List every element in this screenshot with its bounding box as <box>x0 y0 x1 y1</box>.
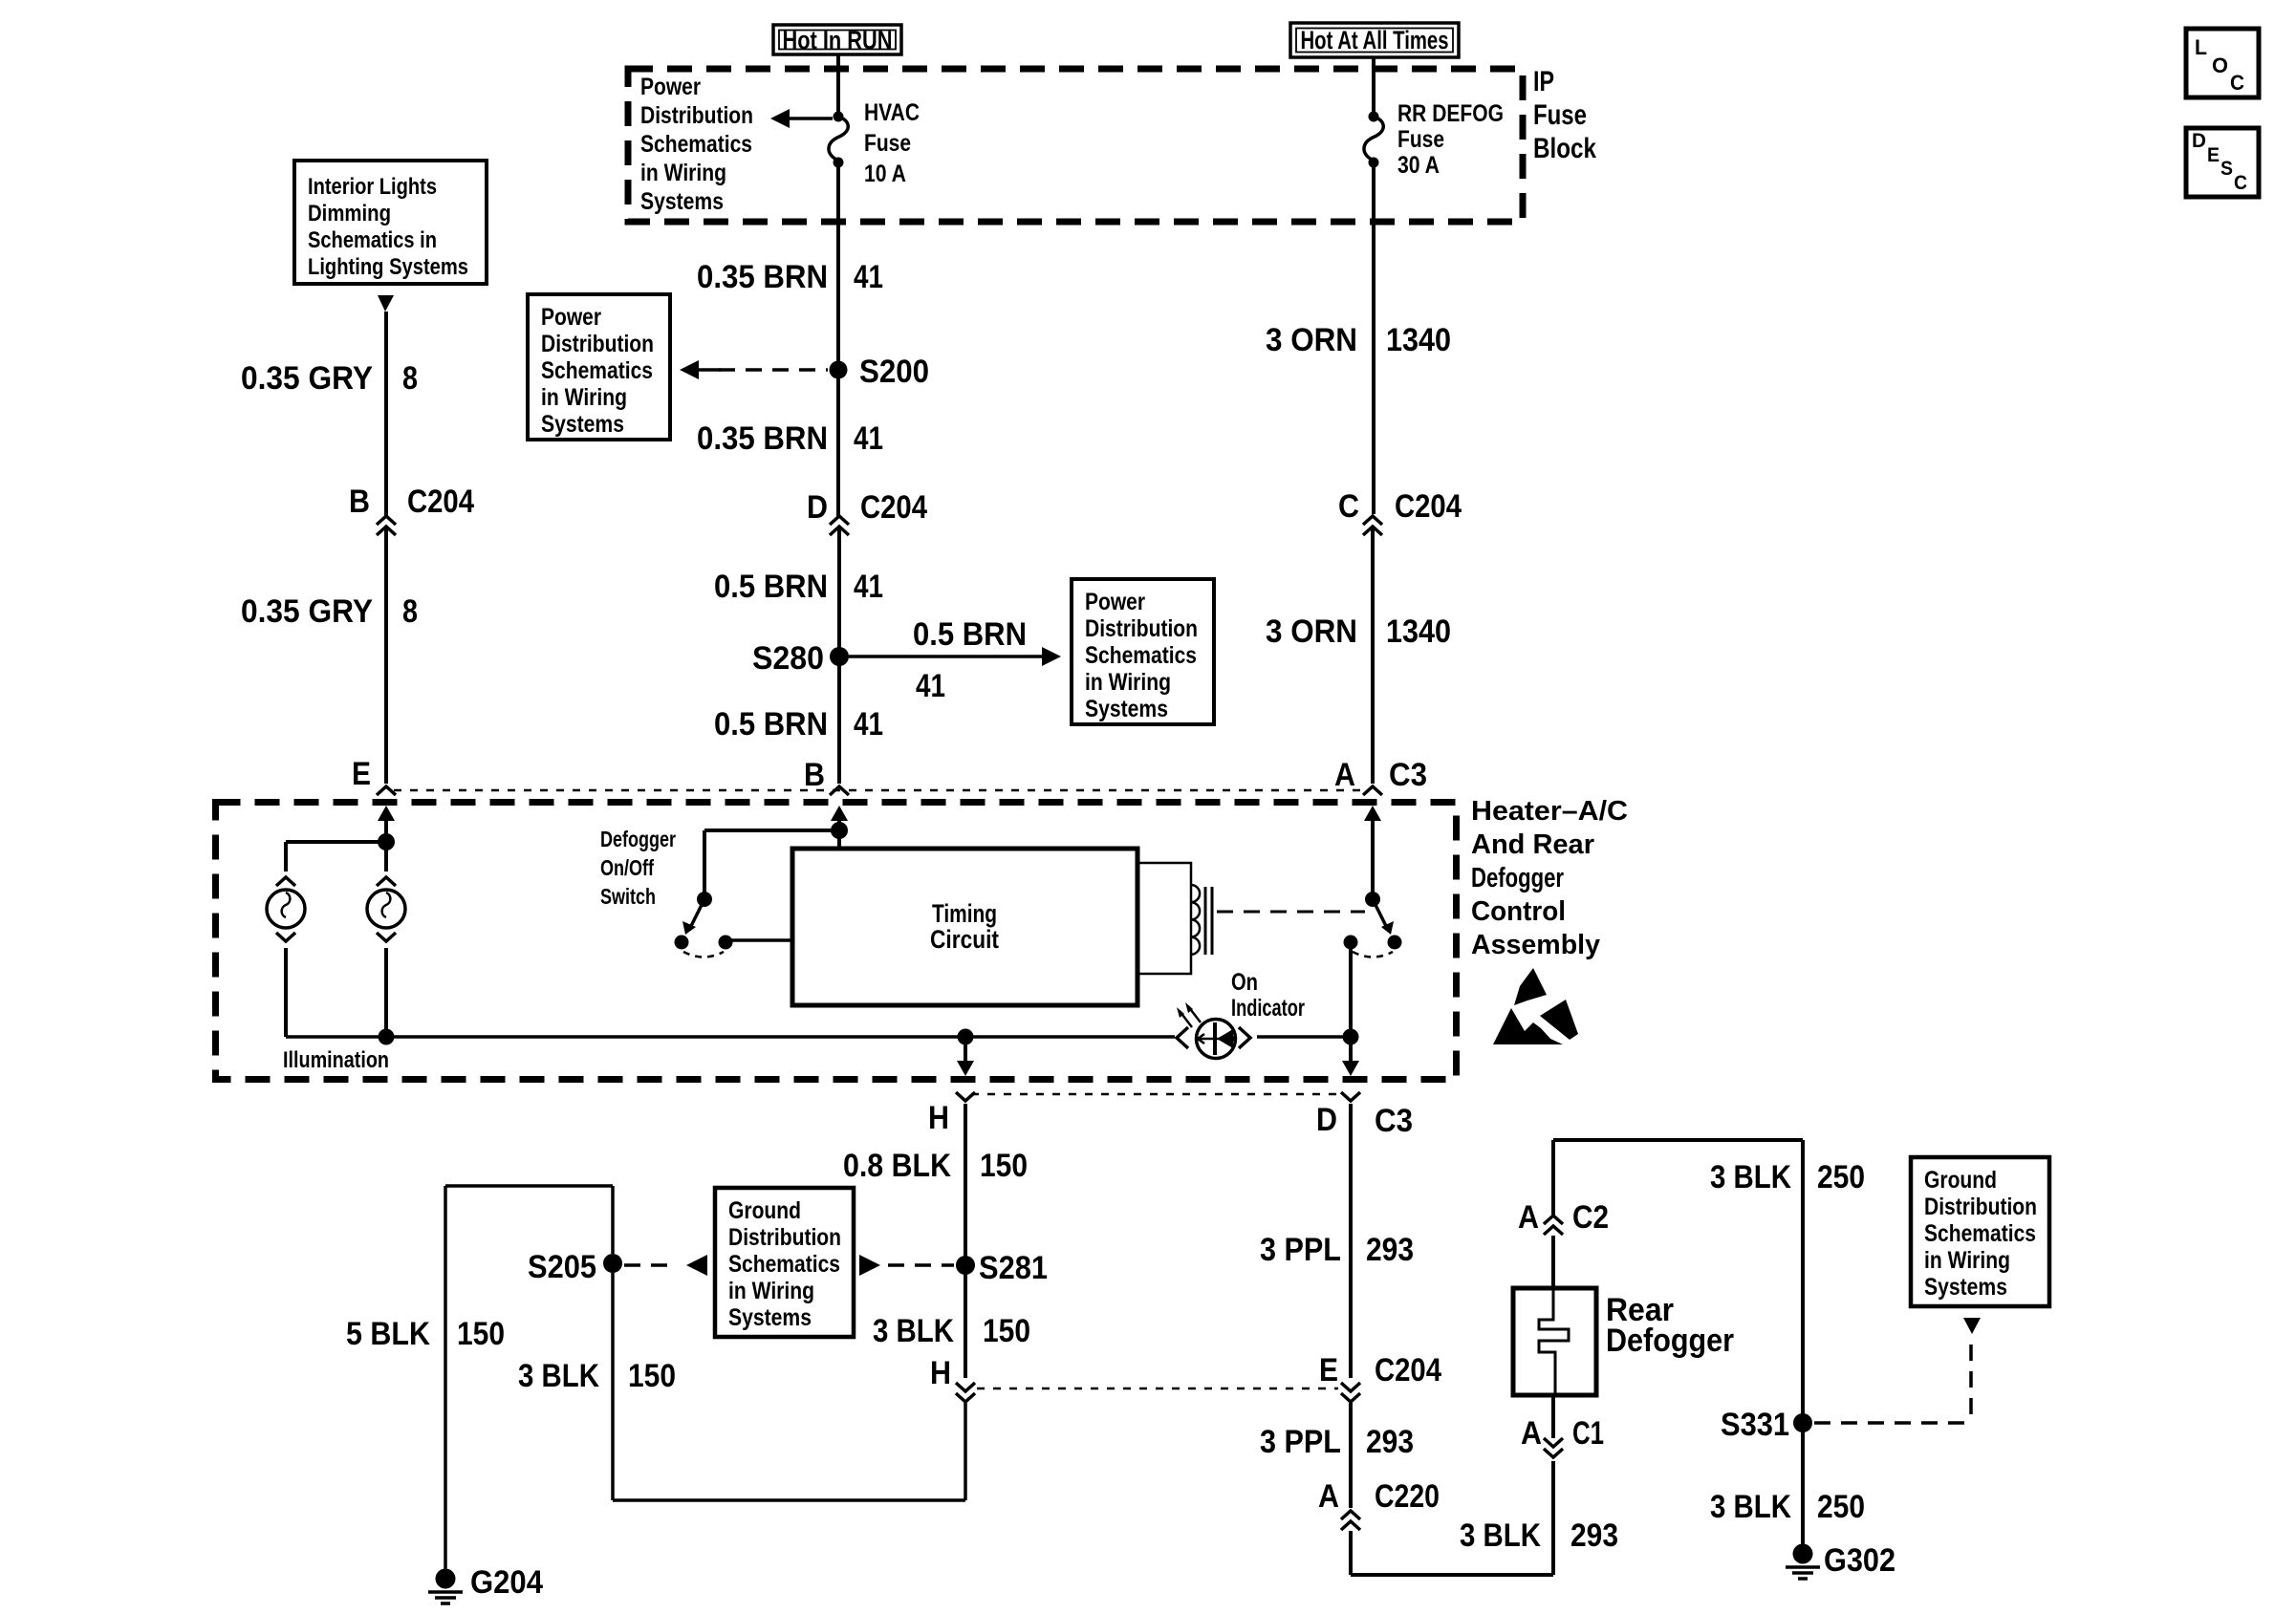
svg-text:C204: C204 <box>1395 488 1462 525</box>
svg-text:3 ORN: 3 ORN <box>1266 613 1357 650</box>
svg-text:0.5 BRN: 0.5 BRN <box>714 706 828 742</box>
svg-text:Lighting Systems: Lighting Systems <box>308 254 468 280</box>
svg-text:Distribution: Distribution <box>1924 1194 2037 1220</box>
svg-text:293: 293 <box>1366 1424 1414 1460</box>
svg-text:Power: Power <box>1085 589 1145 615</box>
svg-text:Ground: Ground <box>1924 1167 1997 1194</box>
svg-text:Fuse: Fuse <box>1533 99 1587 131</box>
svg-text:Assembly: Assembly <box>1471 930 1600 960</box>
svg-text:3 PPL: 3 PPL <box>1260 1424 1341 1460</box>
svg-text:Systems: Systems <box>1085 696 1168 722</box>
svg-text:0.5 BRN: 0.5 BRN <box>714 569 828 605</box>
svg-text:B: B <box>349 484 370 520</box>
svg-text:On: On <box>1231 969 1258 996</box>
svg-text:C220: C220 <box>1375 1478 1440 1515</box>
svg-text:41: 41 <box>854 706 883 742</box>
svg-text:Hot In RUN: Hot In RUN <box>783 26 893 54</box>
svg-text:3 BLK: 3 BLK <box>1460 1517 1541 1554</box>
svg-text:S281: S281 <box>979 1250 1048 1286</box>
svg-text:in Wiring: in Wiring <box>640 160 726 186</box>
svg-text:G302: G302 <box>1824 1542 1895 1579</box>
svg-text:Circuit: Circuit <box>930 925 999 954</box>
svg-text:S280: S280 <box>752 640 824 677</box>
svg-text:E: E <box>1319 1352 1338 1388</box>
svg-text:C: C <box>1338 488 1359 525</box>
svg-text:Hot At All Times: Hot At All Times <box>1301 26 1449 54</box>
svg-text:Defogger: Defogger <box>1606 1323 1734 1359</box>
svg-text:1340: 1340 <box>1386 322 1451 358</box>
svg-text:293: 293 <box>1366 1232 1414 1268</box>
svg-text:10 A: 10 A <box>864 161 906 187</box>
svg-text:250: 250 <box>1817 1489 1865 1525</box>
svg-text:Ground: Ground <box>728 1197 801 1224</box>
svg-text:Schematics: Schematics <box>1924 1220 2036 1247</box>
svg-text:3 ORN: 3 ORN <box>1266 322 1357 358</box>
svg-text:O: O <box>2212 54 2228 77</box>
svg-text:C2: C2 <box>1572 1199 1609 1236</box>
svg-text:Indicator: Indicator <box>1231 995 1305 1022</box>
svg-text:Switch: Switch <box>600 884 656 909</box>
svg-text:Dimming: Dimming <box>308 201 391 226</box>
svg-text:IP: IP <box>1533 66 1554 97</box>
svg-text:Illumination: Illumination <box>283 1047 389 1073</box>
svg-text:C204: C204 <box>407 484 474 520</box>
svg-text:A: A <box>1518 1199 1539 1236</box>
svg-text:150: 150 <box>457 1316 505 1352</box>
svg-text:S331: S331 <box>1721 1407 1789 1443</box>
svg-text:in Wiring: in Wiring <box>728 1278 814 1304</box>
svg-text:D: D <box>2192 130 2206 152</box>
svg-text:G204: G204 <box>470 1564 543 1601</box>
svg-text:C: C <box>2234 172 2247 194</box>
svg-text:H: H <box>930 1355 951 1391</box>
svg-text:41: 41 <box>854 420 883 457</box>
svg-text:E: E <box>2207 144 2220 166</box>
svg-text:1340: 1340 <box>1386 613 1451 650</box>
svg-text:H: H <box>928 1100 949 1136</box>
svg-text:3 BLK: 3 BLK <box>518 1358 599 1394</box>
svg-text:C204: C204 <box>1375 1352 1441 1388</box>
svg-text:8: 8 <box>402 360 418 397</box>
svg-text:Schematics: Schematics <box>728 1251 840 1278</box>
svg-text:0.35 BRN: 0.35 BRN <box>697 420 828 457</box>
svg-text:Schematics: Schematics <box>541 357 653 384</box>
svg-text:Distribution: Distribution <box>541 331 654 357</box>
svg-text:Power: Power <box>541 304 601 331</box>
svg-text:A: A <box>1334 757 1355 793</box>
svg-text:Systems: Systems <box>541 411 624 438</box>
svg-text:3 BLK: 3 BLK <box>1710 1159 1791 1195</box>
svg-text:Interior Lights: Interior Lights <box>308 174 437 200</box>
svg-text:Systems: Systems <box>640 188 724 215</box>
svg-text:C1: C1 <box>1572 1415 1604 1452</box>
svg-text:41: 41 <box>854 569 883 605</box>
svg-text:D: D <box>1316 1102 1337 1138</box>
svg-text:0.35 GRY: 0.35 GRY <box>241 593 373 630</box>
svg-text:B: B <box>804 757 825 793</box>
svg-text:5 BLK: 5 BLK <box>346 1316 430 1352</box>
svg-text:0.5 BRN: 0.5 BRN <box>913 616 1027 653</box>
svg-text:Control: Control <box>1471 896 1566 927</box>
svg-text:in Wiring: in Wiring <box>541 384 627 411</box>
svg-text:0.35 BRN: 0.35 BRN <box>697 259 828 295</box>
svg-text:250: 250 <box>1817 1159 1865 1195</box>
svg-text:in Wiring: in Wiring <box>1085 669 1171 696</box>
svg-text:Systems: Systems <box>728 1304 812 1331</box>
svg-text:S200: S200 <box>859 354 929 390</box>
svg-text:Schematics: Schematics <box>640 131 752 158</box>
svg-text:Block: Block <box>1533 133 1596 164</box>
svg-text:Defogger: Defogger <box>1471 863 1564 893</box>
svg-text:Distribution: Distribution <box>728 1224 841 1251</box>
svg-text:S205: S205 <box>528 1249 596 1285</box>
svg-text:Power: Power <box>640 74 701 100</box>
svg-text:Timing: Timing <box>932 899 997 928</box>
svg-text:E: E <box>352 756 371 792</box>
svg-text:in Wiring: in Wiring <box>1924 1247 2010 1274</box>
svg-text:8: 8 <box>402 593 418 630</box>
svg-text:150: 150 <box>628 1358 676 1394</box>
svg-text:Defogger: Defogger <box>600 827 676 851</box>
svg-text:150: 150 <box>983 1313 1030 1349</box>
svg-text:C3: C3 <box>1375 1103 1413 1139</box>
svg-text:On/Off: On/Off <box>600 855 654 880</box>
svg-text:C: C <box>2230 71 2244 95</box>
svg-text:Fuse: Fuse <box>864 130 911 157</box>
svg-text:150: 150 <box>980 1148 1028 1184</box>
svg-text:3 PPL: 3 PPL <box>1260 1232 1341 1268</box>
svg-text:Fuse: Fuse <box>1397 126 1444 153</box>
svg-text:RR DEFOG: RR DEFOG <box>1397 100 1504 127</box>
svg-text:Systems: Systems <box>1924 1274 2007 1301</box>
svg-text:C204: C204 <box>860 489 927 526</box>
svg-text:HVAC: HVAC <box>864 99 920 126</box>
svg-text:S: S <box>2220 158 2233 180</box>
svg-text:L: L <box>2195 35 2207 59</box>
svg-text:0.35 GRY: 0.35 GRY <box>241 360 373 397</box>
svg-text:A: A <box>1318 1478 1339 1515</box>
svg-text:293: 293 <box>1570 1517 1618 1554</box>
svg-text:C3: C3 <box>1389 757 1427 793</box>
svg-text:D: D <box>807 489 828 526</box>
svg-text:3 BLK: 3 BLK <box>873 1313 954 1349</box>
svg-text:41: 41 <box>854 259 883 295</box>
svg-text:30 A: 30 A <box>1397 152 1440 179</box>
svg-text:41: 41 <box>916 668 945 704</box>
svg-text:Distribution: Distribution <box>640 102 753 129</box>
svg-text:And Rear: And Rear <box>1471 829 1594 860</box>
svg-text:0.8 BLK: 0.8 BLK <box>843 1148 951 1184</box>
svg-text:Heater–A/C: Heater–A/C <box>1471 796 1628 827</box>
svg-text:Schematics in: Schematics in <box>308 227 437 253</box>
svg-text:Distribution: Distribution <box>1085 615 1198 642</box>
svg-text:A: A <box>1521 1415 1542 1452</box>
svg-text:3 BLK: 3 BLK <box>1710 1489 1791 1525</box>
svg-text:Schematics: Schematics <box>1085 642 1197 669</box>
